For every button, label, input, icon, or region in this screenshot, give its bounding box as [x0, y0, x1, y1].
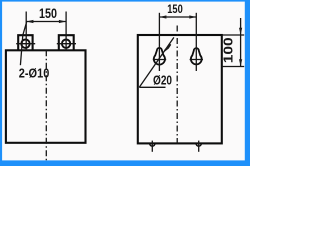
svg-text:2-Ø10: 2-Ø10: [19, 66, 50, 81]
svg-text:150: 150: [167, 4, 183, 16]
svg-text:Ø20: Ø20: [153, 72, 172, 87]
svg-text:150: 150: [39, 6, 57, 21]
svg-text:100: 100: [221, 37, 236, 63]
